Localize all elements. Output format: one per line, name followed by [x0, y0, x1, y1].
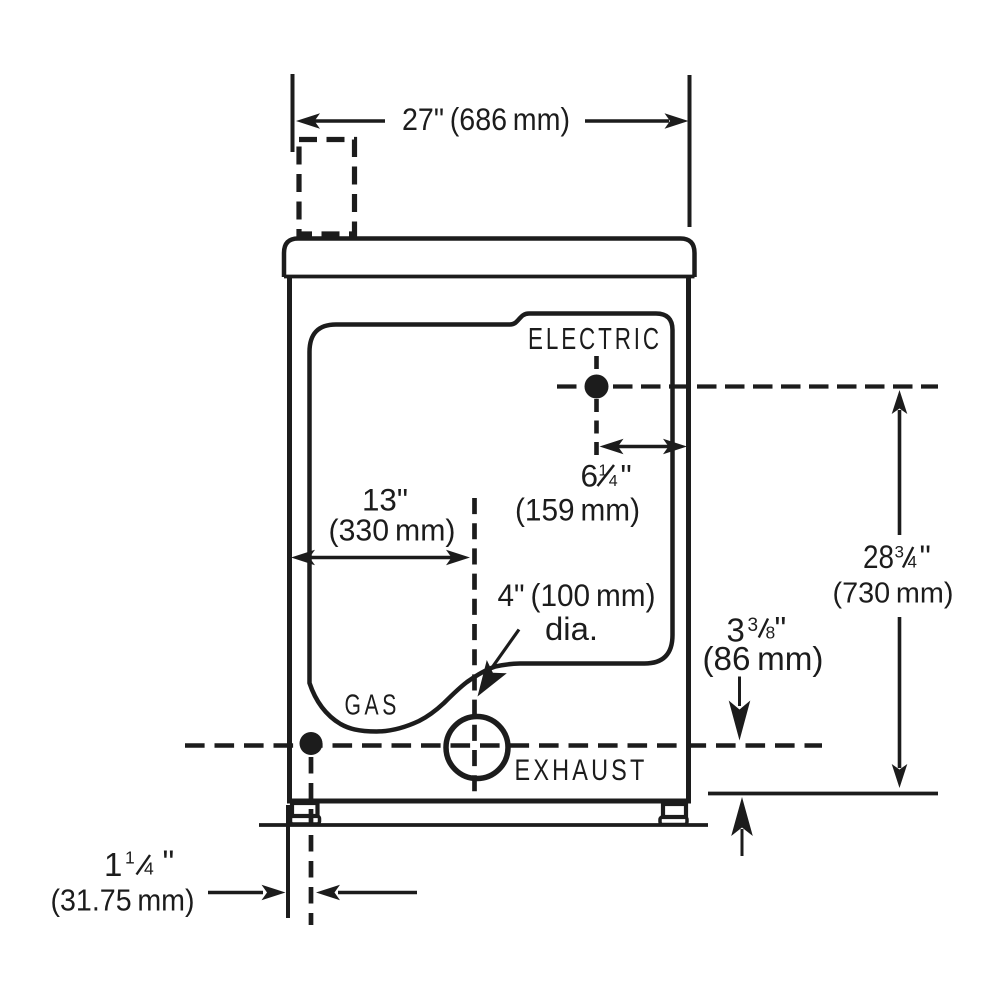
- extension of body left edge below floor: [286, 805, 290, 918]
- gas/exhaust dashed horizontal reference line: [185, 743, 822, 747]
- 3 3/8 down arrow: [738, 677, 741, 707]
- svg-text:4: 4: [908, 553, 917, 572]
- svg-text:GAS: GAS: [345, 690, 401, 722]
- svg-text:1: 1: [104, 846, 122, 883]
- right leg: [663, 804, 686, 817]
- electric dashed horizontal reference line: [557, 384, 938, 388]
- bottom up arrow: [731, 797, 753, 836]
- svg-text:6: 6: [581, 458, 599, 494]
- dimension line 27" left segment with arrowhead: [314, 119, 385, 123]
- dryer body outline: [290, 278, 689, 801]
- svg-text:(330 mm): (330 mm): [329, 513, 456, 548]
- inner back panel outline: [310, 314, 673, 732]
- exhaust centerline vertical dashed: [472, 498, 477, 800]
- gas centerline vertical dashed: [309, 757, 314, 925]
- svg-text:(730 mm): (730 mm): [833, 578, 954, 610]
- svg-text:(86 mm): (86 mm): [703, 640, 824, 677]
- dimension 6 1/4 arrow: [615, 445, 671, 449]
- top cap bottom line: [284, 275, 695, 279]
- gas connection dot: [300, 732, 323, 755]
- svg-text:EXHAUST: EXHAUST: [515, 754, 648, 787]
- bottom reference line right: [708, 792, 938, 796]
- label 6 1/4 ": [581, 458, 632, 494]
- dimension 1 1/4 arrows: [208, 891, 263, 895]
- left leg: [292, 803, 318, 816]
- leader line to exhaust: [491, 630, 519, 670]
- svg-text:4: 4: [144, 859, 154, 879]
- leader arrowhead: [478, 660, 507, 697]
- svg-text:3: 3: [895, 543, 904, 562]
- svg-text:27" (686 mm): 27" (686 mm): [402, 101, 570, 137]
- left foot: [291, 816, 320, 824]
- svg-text:28: 28: [863, 539, 894, 575]
- svg-text:": ": [621, 458, 632, 494]
- svg-text:(31.75 mm): (31.75 mm): [51, 883, 195, 918]
- extension line left (27" dim): [291, 74, 295, 152]
- svg-text:ELECTRIC: ELECTRIC: [528, 321, 662, 356]
- dimension line 27" right segment with arrowhead: [585, 119, 669, 123]
- svg-text:dia.: dia.: [545, 611, 598, 647]
- label 3 3/8 ": [727, 610, 787, 649]
- electric connection dot: [585, 375, 609, 399]
- extension line right (27" dim): [688, 75, 692, 227]
- floor line: [259, 823, 708, 827]
- right foot: [660, 817, 687, 825]
- exhaust circle: [446, 717, 508, 779]
- electric centerline vertical dashed: [594, 356, 599, 458]
- dashed vent duct rectangle: [299, 140, 355, 235]
- label 1 1/4 ": [104, 844, 174, 884]
- svg-text:3: 3: [748, 615, 759, 636]
- top cap outline: [284, 239, 695, 278]
- label 28 3/4 ": [863, 539, 931, 575]
- svg-text:": ": [920, 539, 931, 575]
- svg-text:(159 mm): (159 mm): [515, 492, 640, 528]
- dimension 13" arrow: [310, 556, 452, 560]
- svg-text:4: 4: [609, 473, 618, 490]
- dimension 28 3/4 vertical line: [898, 410, 902, 535]
- svg-text:1: 1: [125, 848, 135, 868]
- svg-text:4" (100 mm): 4" (100 mm): [498, 577, 656, 613]
- svg-text:": ": [163, 844, 175, 881]
